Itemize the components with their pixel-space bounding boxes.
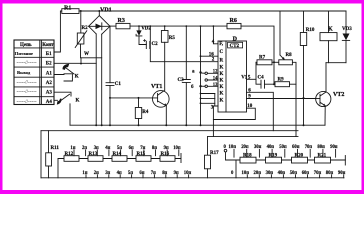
svg-text:4п: 4п	[117, 171, 122, 176]
capacitor C1	[106, 26, 121, 125]
resistor R10	[300, 11, 315, 125]
svg-text:Цепь: Цепь	[20, 43, 32, 48]
timing box left	[41, 131, 344, 178]
svg-text:K: K	[220, 92, 224, 97]
resistor R19	[266, 153, 282, 163]
resistor R12	[64, 152, 79, 161]
wire IC pin 9 to VT2 base	[247, 95, 316, 100]
capacitor C2	[144, 39, 159, 48]
resistor R7	[256, 56, 279, 65]
relay contact K2	[54, 92, 80, 125]
chain2 row	[226, 152, 346, 160]
svg-text:R4: R4	[142, 110, 149, 115]
svg-text:А2: А2	[46, 81, 53, 86]
resistor R21	[315, 153, 331, 163]
wire IC pin 4	[212, 25, 218, 45]
svg-text:0: 0	[231, 171, 234, 176]
svg-text:R5: R5	[169, 36, 176, 41]
svg-text:60п: 60п	[292, 145, 300, 150]
diode VD3	[342, 11, 352, 63]
svg-text:K: K	[76, 99, 80, 104]
svg-text:7п: 7п	[151, 171, 156, 176]
svg-text:-----//-----: -----//-----	[17, 89, 37, 95]
svg-text:R21: R21	[318, 153, 327, 158]
chain2 top taps	[224, 145, 338, 157]
resistor R13	[88, 152, 103, 161]
svg-text:9п: 9п	[164, 146, 169, 151]
svg-text:R10: R10	[306, 28, 315, 33]
wire top rail	[54, 11, 346, 52]
svg-text:W: W	[84, 52, 89, 57]
svg-text:30п: 30п	[266, 171, 274, 176]
resistor R16	[160, 152, 175, 161]
svg-text:5п: 5п	[117, 146, 122, 151]
svg-text:2п: 2п	[94, 171, 99, 176]
svg-text:C3: C3	[178, 78, 185, 83]
resistor R2 varistor W	[75, 11, 102, 58]
svg-text:80п: 80п	[317, 145, 325, 150]
resistor R17	[205, 137, 220, 178]
svg-text:C4: C4	[258, 76, 265, 81]
bus wire D	[208, 120, 299, 137]
svg-text:7п: 7п	[140, 146, 145, 151]
svg-text:C2: C2	[152, 42, 159, 47]
svg-text:10п: 10п	[184, 171, 192, 176]
chain2 bottom taps	[231, 160, 346, 178]
svg-text:10п: 10п	[173, 146, 181, 151]
svg-text:R16: R16	[161, 152, 170, 157]
ground rail	[70, 124, 325, 126]
svg-text:40п: 40п	[267, 145, 275, 150]
svg-text:6п: 6п	[129, 146, 134, 151]
svg-text:50п: 50п	[279, 145, 287, 150]
resistor R4	[109, 97, 149, 125]
svg-text:3п: 3п	[105, 171, 110, 176]
svg-text:VT2: VT2	[333, 92, 344, 98]
svg-text:-----//-----: -----//-----	[17, 80, 37, 86]
resistor R11	[46, 131, 60, 178]
capacitor C3	[178, 25, 191, 125]
svg-text:R6: R6	[230, 18, 237, 24]
svg-text:60п: 60п	[302, 171, 310, 176]
resistor R15	[136, 152, 151, 161]
relay contact K1	[54, 58, 82, 81]
svg-text:K: K	[220, 98, 224, 103]
resistor R3	[110, 18, 227, 29]
resistor R5	[161, 25, 175, 90]
svg-text:8п: 8п	[152, 146, 157, 151]
svg-text:K: K	[75, 75, 79, 80]
svg-text:Выход: Выход	[17, 70, 31, 75]
relay coil K	[320, 11, 337, 63]
wire bridge legs to ground rail	[96, 34, 102, 125]
svg-text:6: 6	[191, 85, 194, 90]
svg-text:6п: 6п	[139, 171, 144, 176]
wire to VT2 collector	[325, 63, 327, 92]
transistor VT1	[110, 84, 169, 125]
svg-text:2п: 2п	[82, 146, 87, 151]
svg-text:30п: 30п	[254, 145, 262, 150]
wire IC pin 10 to pin 3	[213, 104, 255, 120]
svg-text:А4: А4	[46, 100, 53, 105]
svg-text:10п: 10п	[229, 145, 237, 150]
wire reset line to IC pin 2	[149, 25, 218, 62]
resistor R20	[292, 153, 308, 163]
svg-text:1п: 1п	[82, 171, 87, 176]
svg-text:1п: 1п	[70, 146, 75, 151]
svg-text:VT1: VT1	[151, 84, 162, 90]
svg-text:20п: 20п	[241, 145, 249, 150]
svg-text:3п: 3п	[94, 146, 99, 151]
svg-text:70п: 70п	[314, 171, 322, 176]
svg-text:R11: R11	[51, 146, 60, 151]
svg-text:13: 13	[213, 83, 218, 88]
svg-text:K: K	[328, 27, 333, 33]
switch contacts pins	[205, 70, 218, 88]
svg-text:Б1: Б1	[46, 52, 52, 57]
resistor R8	[279, 11, 296, 137]
svg-text:R13: R13	[89, 152, 98, 157]
svg-text:80п: 80п	[326, 171, 334, 176]
svg-text:90п: 90п	[330, 145, 338, 150]
svg-text:R18: R18	[243, 153, 252, 158]
svg-text:8п: 8п	[162, 171, 167, 176]
svg-text:10п: 10п	[242, 171, 250, 176]
zener diode VD2	[136, 25, 151, 44]
terminal b	[191, 85, 205, 90]
wire table B2 to bridge leg	[54, 62, 96, 64]
ground rail junction dots	[95, 124, 304, 126]
svg-text:R: R	[220, 59, 224, 64]
resistor R9	[265, 78, 297, 87]
svg-text:K: K	[220, 72, 224, 77]
wire relay bottom join	[326, 62, 346, 64]
svg-text:VD1: VD1	[100, 8, 112, 14]
svg-text:70п: 70п	[305, 145, 313, 150]
svg-text:R1: R1	[64, 6, 71, 12]
chain1 bottom taps	[82, 171, 191, 178]
resistor R1	[62, 6, 79, 14]
connector table	[14, 40, 54, 105]
svg-text:R8: R8	[286, 53, 293, 58]
svg-text:9п: 9п	[174, 171, 179, 176]
svg-text:Конт: Конт	[42, 43, 54, 48]
svg-text:4п: 4п	[105, 146, 110, 151]
wire IC pin 16	[201, 52, 219, 57]
svg-text:-----//-----: -----//-----	[17, 60, 37, 66]
svg-text:R9: R9	[278, 78, 285, 83]
chain2 end tick	[344, 156, 346, 166]
svg-text:CT2: CT2	[230, 44, 240, 49]
svg-text:12: 12	[213, 70, 218, 75]
svg-text:a: a	[192, 70, 195, 75]
svg-text:VD3: VD3	[342, 27, 352, 32]
resistor R6	[227, 18, 274, 84]
svg-text:R17: R17	[210, 151, 219, 156]
svg-text:14: 14	[213, 77, 218, 82]
svg-text:R20: R20	[295, 153, 304, 158]
svg-text:R3: R3	[118, 18, 125, 24]
terminal a	[192, 70, 205, 75]
wire IC lower left pins	[200, 93, 215, 106]
svg-text:А3: А3	[46, 90, 53, 95]
svg-text:R12: R12	[65, 152, 74, 157]
svg-text:5п: 5п	[128, 171, 133, 176]
chain1 top taps	[70, 146, 180, 156]
svg-text:-----//-----: -----//-----	[17, 99, 37, 105]
diode bridge VD1	[89, 8, 112, 35]
svg-text:Б2: Б2	[46, 62, 52, 67]
svg-text:C1: C1	[115, 82, 122, 87]
svg-text:40п: 40п	[278, 171, 286, 176]
svg-text:А1: А1	[46, 71, 53, 76]
svg-text:20п: 20п	[254, 171, 262, 176]
wire IC pin 6	[247, 88, 274, 130]
svg-text:50п: 50п	[290, 171, 298, 176]
op IC D counter CT2	[218, 36, 248, 112]
svg-text:Питание: Питание	[15, 51, 33, 56]
svg-text:K: K	[220, 85, 224, 90]
capacitor C4	[256, 62, 265, 88]
svg-text:K: K	[220, 66, 224, 71]
svg-text:90п: 90п	[338, 171, 346, 176]
svg-text:10: 10	[247, 104, 253, 109]
node R1-R2 junction	[80, 10, 82, 12]
resistor R14	[112, 152, 127, 161]
wire pin16 column to rail	[200, 26, 202, 125]
svg-text:R7: R7	[259, 56, 266, 61]
wire IC pin 5	[247, 75, 257, 80]
svg-text:R2: R2	[82, 26, 89, 31]
resistor R18	[240, 153, 256, 163]
transistor VT2	[316, 91, 345, 125]
chain1 row	[58, 154, 181, 178]
svg-text:K: K	[220, 79, 224, 84]
svg-text:R19: R19	[269, 153, 278, 158]
svg-text:C: C	[220, 50, 224, 55]
